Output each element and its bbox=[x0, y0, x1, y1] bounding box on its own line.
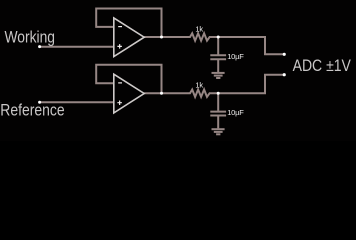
svg-text:ADC ±1V: ADC ±1V bbox=[293, 56, 352, 75]
svg-text:Working: Working bbox=[5, 28, 56, 47]
svg-text:10µF: 10µF bbox=[227, 108, 244, 117]
svg-text:1k: 1k bbox=[195, 25, 203, 34]
svg-text:10µF: 10µF bbox=[227, 52, 244, 61]
svg-text:Reference: Reference bbox=[0, 100, 64, 119]
svg-text:1k: 1k bbox=[195, 81, 203, 90]
